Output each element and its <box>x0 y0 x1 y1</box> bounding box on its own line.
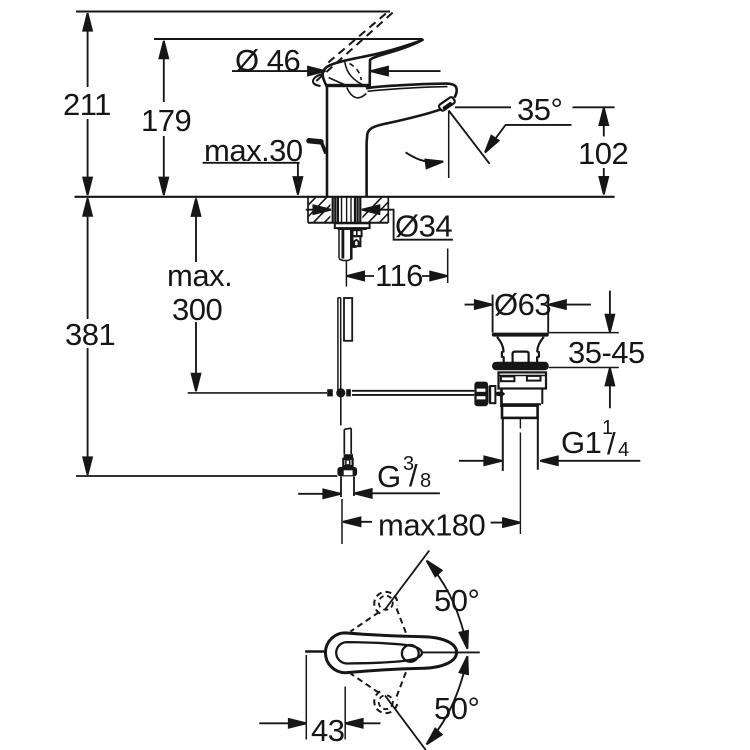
svg-text:Ø 46: Ø 46 <box>235 43 300 78</box>
svg-text:116: 116 <box>375 258 423 293</box>
pop-up rod pair below faucet <box>338 298 341 399</box>
faucet: dashed raised lever <box>316 12 393 81</box>
mounting flange under deck <box>335 223 370 228</box>
dimension 211 <box>63 13 111 195</box>
drain: knob (knurled) <box>474 382 488 407</box>
horizontal rod to drain knob <box>352 391 474 395</box>
faucet: pop-up rod hook <box>309 141 321 142</box>
dimension 102 <box>578 108 628 195</box>
svg-text:50°: 50° <box>434 691 479 726</box>
dimension max.30 <box>203 133 303 195</box>
reference line top (211 datum) <box>76 11 390 13</box>
svg-text:179: 179 <box>141 103 191 138</box>
top view: handle inner outline <box>336 642 422 663</box>
35 degree spray indicator <box>449 92 615 178</box>
drain: flange ring <box>492 362 549 371</box>
svg-text:8: 8 <box>420 470 431 492</box>
reference line 179 datum <box>154 38 423 40</box>
deck hatching <box>290 196 350 224</box>
faucet: dashed cartridge arc <box>350 64 362 81</box>
svg-text:max180: max180 <box>378 508 486 543</box>
top view: cartridge circle <box>402 645 419 662</box>
faucet: sphere arc below seam <box>347 88 367 98</box>
svg-text:max.30: max.30 <box>204 133 303 168</box>
drain: funnel left <box>497 337 504 362</box>
dimension Ø63 <box>465 287 591 322</box>
drain: rim walls / Ø63 extension lines <box>493 295 549 333</box>
svg-text:/: / <box>607 426 616 461</box>
svg-text:43: 43 <box>311 713 344 748</box>
dimension 35-45 <box>548 291 645 409</box>
horizontal actuating rod (thin left part) <box>188 392 327 394</box>
drain: pivot lens <box>495 392 505 397</box>
countertop deck line <box>75 196 615 198</box>
svg-text:G: G <box>377 459 401 494</box>
svg-text:Ø34: Ø34 <box>395 209 452 244</box>
faucet: spout top edge and nose <box>366 84 457 98</box>
faucet shank through deck <box>333 198 361 223</box>
deck cross-section <box>308 222 388 224</box>
drain: lower body <box>502 389 543 405</box>
svg-text:4: 4 <box>618 439 629 461</box>
drain: tailpiece <box>503 418 538 471</box>
svg-text:/: / <box>409 458 418 493</box>
faucet: dome sphere arc <box>345 62 366 86</box>
drain: rim shoulder <box>492 333 549 337</box>
faucet: lever and dome outline <box>323 40 423 197</box>
faucet: inner spout line <box>368 87 448 92</box>
top view: angle rays <box>385 551 429 610</box>
faucet: handle front lip <box>313 75 322 87</box>
top view: supply stub <box>305 650 325 652</box>
top view: dashed rotated handle lower <box>351 669 408 714</box>
svg-text:211: 211 <box>63 87 111 122</box>
svg-text:381: 381 <box>65 317 115 352</box>
dimension Ø34 with leader <box>306 205 453 243</box>
svg-text:G1: G1 <box>561 425 601 460</box>
dimension max. 300 <box>167 199 232 392</box>
G3/8 compression nut <box>337 467 357 477</box>
dimension max180 <box>343 508 521 543</box>
faucet: dome detail diagonal <box>329 78 347 86</box>
svg-text:300: 300 <box>172 292 222 327</box>
faucet: aerator <box>438 96 456 111</box>
top view: dashed rotated handle upper <box>351 592 408 637</box>
top view: body outline <box>325 633 456 673</box>
vertical rod below ball <box>340 398 342 426</box>
svg-text:max.: max. <box>167 258 232 293</box>
drain: coupling <box>502 406 538 418</box>
svg-text:102: 102 <box>578 136 628 171</box>
svg-text:Ø63: Ø63 <box>494 287 551 322</box>
supply level line (381 datum bottom) <box>76 475 337 477</box>
spout swivel arc arrow <box>406 152 440 162</box>
svg-text:35-45: 35-45 <box>568 335 645 370</box>
drain: funnel right <box>537 337 544 362</box>
faucet: spout bottom edge and body right side <box>367 109 441 196</box>
dimension Ø46 <box>232 43 441 78</box>
ball joint <box>336 388 345 397</box>
dimension G3/8 <box>298 453 440 498</box>
top view: 50 degree arcs <box>427 562 467 647</box>
svg-text:50°: 50° <box>434 583 479 618</box>
svg-text:35°: 35° <box>517 92 562 127</box>
faucet: dome/body seam <box>327 84 370 87</box>
dimension 43 <box>259 655 380 748</box>
supply pipe <box>344 428 351 454</box>
drain: center cap <box>513 352 529 363</box>
dimension 381 <box>65 198 115 475</box>
dimension G1 1/4 <box>459 417 640 465</box>
supply tube below nut <box>341 477 354 497</box>
mounting hardware stack <box>338 230 340 259</box>
rod guide tube <box>344 298 352 341</box>
dimension 116 <box>346 249 447 294</box>
dimension 179 <box>141 41 191 195</box>
drain: upper body with overflow slots <box>499 372 547 388</box>
